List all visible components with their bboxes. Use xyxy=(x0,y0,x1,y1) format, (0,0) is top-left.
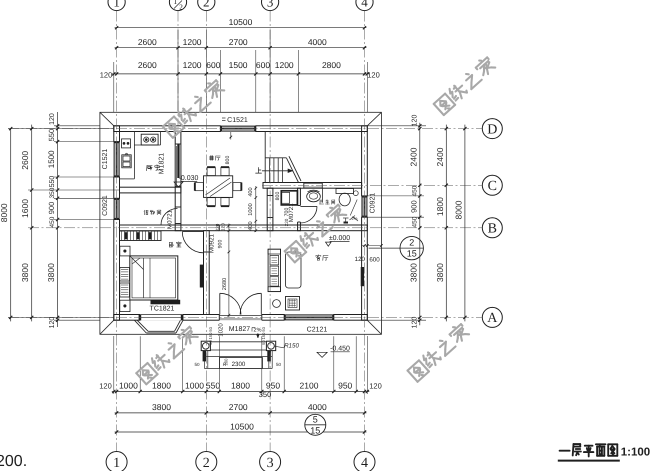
svg-text:200: 200 xyxy=(224,358,229,366)
svg-text:2400: 2400 xyxy=(435,147,445,166)
svg-text:R150: R150 xyxy=(284,342,299,349)
svg-text:120: 120 xyxy=(221,223,226,231)
svg-text:120: 120 xyxy=(369,382,382,391)
svg-text:2800: 2800 xyxy=(322,60,341,70)
svg-text:1: 1 xyxy=(113,456,120,471)
svg-text:10500: 10500 xyxy=(229,17,253,27)
svg-text:2: 2 xyxy=(409,238,414,248)
svg-text:2300: 2300 xyxy=(232,361,246,368)
svg-text:C1521: C1521 xyxy=(102,149,109,170)
svg-text:1: 1 xyxy=(173,0,177,6)
svg-text:M0721: M0721 xyxy=(167,209,174,228)
svg-text:-0.030: -0.030 xyxy=(179,175,199,182)
svg-text:1200: 1200 xyxy=(183,60,202,70)
svg-text:900: 900 xyxy=(409,200,418,213)
svg-text:1000: 1000 xyxy=(185,381,204,391)
svg-text:3800: 3800 xyxy=(46,263,56,282)
svg-text:4: 4 xyxy=(361,456,368,471)
svg-text:1800: 1800 xyxy=(152,381,171,391)
svg-text:700: 700 xyxy=(284,208,290,217)
svg-text:TC1821: TC1821 xyxy=(150,306,175,313)
svg-text:2%: 2% xyxy=(351,216,357,221)
svg-text:2: 2 xyxy=(203,0,210,9)
svg-text:C2121: C2121 xyxy=(307,327,328,334)
svg-text:2600: 2600 xyxy=(138,37,157,47)
svg-text:3: 3 xyxy=(267,456,274,471)
svg-text:350: 350 xyxy=(49,187,56,198)
svg-text:600: 600 xyxy=(256,60,270,70)
svg-text:550: 550 xyxy=(47,129,56,142)
svg-text:1800: 1800 xyxy=(231,381,250,391)
svg-text:450: 450 xyxy=(411,216,418,227)
svg-text:1020: 1020 xyxy=(217,323,224,337)
svg-text:900: 900 xyxy=(47,202,56,215)
svg-text:1200: 1200 xyxy=(183,37,202,47)
svg-text:M1821: M1821 xyxy=(159,153,166,175)
svg-text:4000: 4000 xyxy=(308,37,327,47)
svg-text:2400: 2400 xyxy=(408,147,418,166)
svg-text:1200: 1200 xyxy=(275,60,294,70)
svg-text:2600: 2600 xyxy=(20,151,30,170)
svg-text:-0.450: -0.450 xyxy=(330,345,350,352)
svg-text:220: 220 xyxy=(215,223,220,231)
svg-text:3800: 3800 xyxy=(152,402,171,412)
svg-text:D: D xyxy=(487,122,497,137)
svg-text:450: 450 xyxy=(411,185,418,196)
svg-text:200.: 200. xyxy=(0,453,27,470)
svg-text:10500: 10500 xyxy=(230,421,254,431)
svg-text:3800: 3800 xyxy=(408,263,418,282)
svg-text:1500: 1500 xyxy=(229,60,248,70)
svg-text:350: 350 xyxy=(259,390,272,399)
svg-text:550: 550 xyxy=(206,381,220,391)
svg-text:C: C xyxy=(488,179,497,194)
svg-text:120: 120 xyxy=(49,113,56,125)
svg-text:2680: 2680 xyxy=(222,278,228,290)
svg-text:800: 800 xyxy=(275,192,281,201)
svg-text:2: 2 xyxy=(203,456,210,471)
svg-text:2100: 2100 xyxy=(300,381,319,391)
svg-text:1000: 1000 xyxy=(248,203,254,215)
svg-text:50: 50 xyxy=(194,362,200,367)
svg-text:2600: 2600 xyxy=(138,60,157,70)
svg-text:120: 120 xyxy=(411,317,418,329)
svg-text:1: 1 xyxy=(113,0,120,9)
svg-text:1500: 1500 xyxy=(47,150,56,168)
svg-text:120: 120 xyxy=(367,71,380,80)
svg-text:5: 5 xyxy=(313,414,318,424)
svg-text:600: 600 xyxy=(369,257,380,264)
svg-text:120: 120 xyxy=(99,382,112,391)
svg-text:1800: 1800 xyxy=(435,197,445,216)
svg-text:3800: 3800 xyxy=(20,263,30,282)
svg-text:A: A xyxy=(487,311,498,326)
svg-text:B: B xyxy=(488,222,497,237)
svg-text:M0921: M0921 xyxy=(208,233,215,252)
svg-text:15: 15 xyxy=(310,425,320,435)
svg-text:8000: 8000 xyxy=(453,200,463,219)
svg-text:50: 50 xyxy=(276,362,282,367)
svg-text:8000: 8000 xyxy=(0,203,9,222)
svg-text:900: 900 xyxy=(218,240,224,249)
svg-text:800: 800 xyxy=(225,156,231,165)
svg-text:950: 950 xyxy=(338,381,352,391)
svg-text:2700: 2700 xyxy=(229,402,248,412)
svg-text:50 150 50: 50 150 50 xyxy=(208,326,213,345)
svg-text:3800: 3800 xyxy=(435,263,445,282)
svg-text:120: 120 xyxy=(49,317,56,329)
svg-text:120: 120 xyxy=(355,256,366,263)
svg-text:550: 550 xyxy=(49,176,56,188)
svg-text:15: 15 xyxy=(407,249,417,259)
svg-text:120: 120 xyxy=(100,71,113,80)
svg-text:400: 400 xyxy=(248,187,254,196)
svg-text:3: 3 xyxy=(267,0,274,9)
svg-text:1600: 1600 xyxy=(20,199,30,218)
svg-text:600: 600 xyxy=(206,60,220,70)
svg-text:4000: 4000 xyxy=(308,402,327,412)
svg-text:4: 4 xyxy=(361,0,368,9)
svg-text:1000: 1000 xyxy=(119,381,138,391)
svg-text:±0.000: ±0.000 xyxy=(329,235,350,242)
svg-text:1:100: 1:100 xyxy=(621,447,650,459)
svg-text:120: 120 xyxy=(411,115,418,127)
svg-text:M1827: M1827 xyxy=(229,326,251,333)
svg-text:C1521: C1521 xyxy=(227,117,248,124)
svg-text:400: 400 xyxy=(248,221,254,230)
svg-text:450: 450 xyxy=(49,216,56,227)
svg-text:220: 220 xyxy=(284,218,289,226)
svg-text:2: 2 xyxy=(179,3,183,12)
svg-text:2700: 2700 xyxy=(229,37,248,47)
